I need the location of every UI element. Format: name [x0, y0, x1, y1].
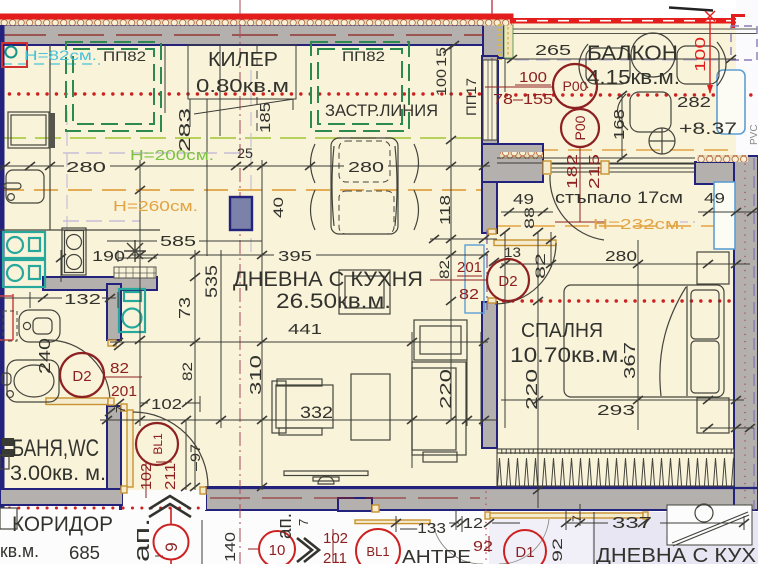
- black dash top right: [669, 8, 713, 11]
- bath sink: [7, 360, 59, 402]
- svg-text:293: 293: [597, 402, 635, 419]
- circle BL1 corridor: [356, 529, 400, 564]
- svg-text:168: 168: [611, 109, 628, 140]
- svg-text:185: 185: [257, 102, 274, 133]
- svg-text:535: 535: [202, 265, 221, 298]
- left wall: [0, 25, 5, 510]
- TV stand: [284, 471, 368, 476]
- svg-text:82: 82: [436, 260, 452, 279]
- balcony round table: [631, 33, 675, 77]
- circle P00 #1: [553, 64, 597, 108]
- svg-text:100: 100: [692, 37, 709, 72]
- toilet: [19, 310, 60, 342]
- circle D1 corridor: [504, 530, 546, 564]
- circle D2 bathroom: [60, 353, 104, 397]
- sofa 332: [276, 385, 333, 428]
- svg-text:337: 337: [612, 515, 652, 532]
- chair backs left: [311, 144, 316, 183]
- red box top-left + teal circle: [2, 43, 27, 67]
- tan insulation strip balcony left: [498, 24, 502, 60]
- svg-text:78–155: 78–155: [493, 91, 553, 108]
- svg-text:211: 211: [323, 550, 347, 564]
- svg-text:15: 15: [433, 47, 449, 67]
- svg-text:215: 215: [586, 154, 603, 189]
- PVC window balcony right: [717, 70, 745, 134]
- nightstand top: [697, 252, 729, 284]
- balcony chair right: [677, 46, 719, 84]
- nightstand bottom: [697, 398, 729, 433]
- lavender cabinet dashes kitchen: [63, 152, 252, 154]
- bedroom red dotted: [494, 299, 758, 302]
- svg-text:BL1: BL1: [151, 433, 165, 455]
- svg-text:265: 265: [535, 42, 571, 59]
- balcony floor edge lines: [497, 157, 695, 159]
- svg-text:220: 220: [524, 369, 541, 410]
- circle 9: [154, 525, 189, 560]
- svg-text:201: 201: [111, 383, 137, 400]
- svg-text:102: 102: [138, 463, 155, 490]
- circle BL1 hall: [136, 423, 178, 465]
- tilted window lower apartment: [667, 505, 752, 545]
- svg-text:P00: P00: [563, 78, 588, 94]
- svg-text:26.50кв.м.: 26.50кв.м.: [276, 290, 391, 313]
- svg-text:12: 12: [463, 515, 483, 532]
- svg-text:685: 685: [69, 543, 100, 563]
- svg-text:КИЛЕР: КИЛЕР: [208, 49, 278, 71]
- washing machine teal: [3, 260, 45, 287]
- corridor small door sill: [355, 520, 430, 524]
- vertical: [139, 160, 141, 426]
- top wall center dashed red line: [0, 34, 483, 36]
- bottom wall: [0, 489, 123, 505]
- svg-text:ЗАСТР.ЛИНИЯ: ЗАСТР.ЛИНИЯ: [325, 101, 438, 120]
- middle wall mid (above D2 door): [482, 182, 497, 233]
- svg-text:310: 310: [248, 355, 265, 395]
- svg-text:9: 9: [162, 542, 181, 551]
- svg-text:3.00кв. м.: 3.00кв. м.: [10, 462, 106, 485]
- svg-text:4.15кв.м.: 4.15кв.м.: [587, 67, 680, 89]
- svg-text:–97: –97: [187, 444, 203, 471]
- svg-text:367: 367: [622, 342, 639, 379]
- svg-text:0.80кв.м: 0.80кв.м: [196, 76, 289, 96]
- middle wall lower (below D2 door): [482, 302, 497, 448]
- stove: [62, 228, 86, 275]
- svg-text:BL1: BL1: [366, 544, 389, 559]
- svg-text:441: 441: [288, 321, 322, 338]
- right outer wall: [734, 156, 758, 510]
- svg-text:PVC: PVC: [749, 124, 758, 145]
- bath right wall lower: [107, 406, 121, 492]
- svg-text:132: 132: [64, 291, 101, 308]
- svg-text:88: 88: [521, 207, 537, 229]
- insulation bump row top: [0, 19, 513, 26]
- svg-text:СПАЛНЯ: СПАЛНЯ: [521, 320, 603, 342]
- armchair 1 (under 26.50 text): [339, 270, 390, 314]
- window PP82 #2 green dashed double rect: [311, 42, 409, 131]
- circle texts: [72, 78, 588, 561]
- middle wall upper (living/balcony): [482, 56, 498, 144]
- svg-text:кв.м.: кв.м.: [0, 541, 39, 561]
- svg-text:БАЛКОН: БАЛКОН: [587, 42, 678, 65]
- blue niche bedroom top-right: [714, 182, 735, 249]
- asterisk symbol: [124, 240, 146, 262]
- svg-text:82: 82: [532, 253, 548, 279]
- bed: [564, 285, 724, 397]
- svg-text:82: 82: [110, 360, 129, 377]
- red pipes bathroom: [0, 294, 13, 340]
- window PP82 #1 green dashed double rect: [66, 42, 161, 131]
- svg-text:40: 40: [270, 197, 286, 218]
- svg-text:ПП17: ПП17: [463, 78, 479, 116]
- svg-text:73: 73: [177, 297, 194, 319]
- svg-text:ПП82: ПП82: [342, 48, 385, 64]
- top wall: [0, 25, 485, 45]
- fridge: [8, 112, 49, 148]
- balcony lavender dashed line: [515, 59, 736, 61]
- svg-text:240: 240: [37, 338, 54, 374]
- svg-text:102: 102: [323, 530, 348, 547]
- dashed appliance bathroom: [3, 311, 17, 341]
- door D2 bedroom: leaf + arc: [494, 240, 556, 246]
- kitchen sink unit: [6, 170, 44, 203]
- svg-text:182: 182: [564, 154, 581, 189]
- right wall center red line: [744, 164, 746, 510]
- small panel bottom-left on wall: [0, 508, 17, 529]
- coffee table: [351, 374, 390, 440]
- middle wall L-block: [482, 144, 543, 182]
- circle D2 bedroom: [487, 259, 529, 301]
- purple dashed rect top right: [731, 26, 757, 60]
- duct navy box: [230, 197, 252, 230]
- dishwasher teal: [3, 232, 45, 258]
- svg-text:332: 332: [300, 403, 333, 422]
- svg-text:100: 100: [433, 69, 449, 96]
- svg-text:ДНЕВНА С КУХНЯ: ДНЕВНА С КУХНЯ: [233, 268, 423, 291]
- balcony chair left: [586, 48, 630, 84]
- kitchen counter edge: [49, 45, 51, 230]
- towel rail dark: [2, 438, 14, 446]
- svg-text:395: 395: [278, 248, 312, 265]
- svg-text:D2: D2: [72, 368, 91, 385]
- circle 10: [259, 531, 295, 564]
- wardrobe hatched: [497, 449, 734, 486]
- svg-text:140: 140: [222, 532, 239, 562]
- svg-text:ап.: ап.: [129, 518, 154, 562]
- bedroom top right wall: [695, 162, 758, 184]
- rotated dimension numbers: [37, 47, 639, 562]
- chair backs right: [414, 144, 419, 183]
- purple dashed line right wall: [753, 158, 755, 510]
- svg-text:92: 92: [549, 538, 565, 562]
- red facade line top: [0, 14, 513, 20]
- svg-text:211: 211: [162, 463, 179, 490]
- svg-text:H=232см.: H=232см.: [593, 216, 685, 233]
- cyan dashes top-left: [2, 63, 100, 65]
- kitchen/living red dotted: [0, 92, 484, 95]
- tan jambs balcony door: [543, 161, 551, 174]
- svg-text:118: 118: [437, 195, 454, 225]
- svg-text:10: 10: [269, 542, 286, 559]
- svg-text:D1: D1: [515, 544, 534, 561]
- maroon leader lines: [104, 85, 605, 564]
- svg-text:H=260см.: H=260см.: [113, 198, 198, 215]
- corridor door arcs lower apartment: [433, 524, 483, 564]
- right sliver above bedroom wall: [736, 0, 758, 156]
- svg-text:ап.: ап.: [274, 513, 296, 539]
- svg-text:7: 7: [113, 406, 128, 413]
- svg-text:585: 585: [160, 233, 196, 250]
- armchair 2: [414, 320, 467, 360]
- svg-text:—133: —133: [400, 520, 446, 537]
- window PP17 in middle wall: [483, 60, 497, 140]
- svg-text:280: 280: [66, 159, 106, 176]
- door BL1 hall: leaf + arc: [127, 410, 133, 487]
- balcony orange dashed line: [500, 149, 736, 151]
- balcony red dotted: [497, 93, 758, 96]
- bottom red dotted: [0, 507, 480, 510]
- closet KILER outlines: [188, 45, 296, 99]
- svg-text:49: 49: [704, 190, 725, 207]
- svg-text:H=200см.: H=200см.: [130, 147, 214, 164]
- svg-text:282: 282: [677, 94, 711, 111]
- svg-text:+8.37: +8.37: [679, 119, 737, 138]
- svg-text:10.70кв.м.: 10.70кв.м.: [510, 344, 625, 367]
- svg-text:82: 82: [459, 286, 479, 303]
- svg-text:D2: D2: [498, 273, 517, 290]
- svg-text:100: 100: [519, 69, 547, 86]
- svg-text:ДНЕВНА С КУХ: ДНЕВНА С КУХ: [596, 545, 756, 564]
- blue niche living room: [465, 245, 484, 313]
- insulation bumps bedroom top right: [697, 155, 748, 162]
- H=260 orange dashed line: [0, 189, 486, 191]
- bath right wall upper: [107, 284, 121, 340]
- svg-text:280: 280: [605, 248, 637, 265]
- svg-text:280: 280: [348, 159, 384, 176]
- balcony door swing arc: [550, 175, 604, 240]
- dining table: [331, 138, 398, 234]
- sofa 220 vertical: [412, 362, 466, 455]
- svg-text:КОРИДОР: КОРИДОР: [12, 513, 113, 536]
- svg-text:БАНЯ,WC: БАНЯ,WC: [12, 435, 99, 462]
- door D2 bathroom: leaf + arc: [46, 398, 108, 405]
- circle P00 #2: [561, 109, 599, 147]
- corridor strip: [0, 510, 758, 564]
- corridor wide door sill: [489, 513, 643, 518]
- lavender lower-right: [592, 512, 758, 564]
- drainer grid: [114, 267, 156, 278]
- wall step lower apartment: [338, 498, 372, 511]
- svg-text:P00: P00: [572, 115, 588, 140]
- chevrons: [149, 496, 319, 562]
- svg-text:7: 7: [570, 515, 584, 522]
- svg-text:283: 283: [177, 108, 194, 152]
- svg-text:220: 220: [438, 369, 455, 409]
- svg-text:ПП82: ПП82: [103, 48, 146, 64]
- chairs dashed under table: [339, 141, 390, 182]
- red dimension: balcony 100: [705, 11, 715, 94]
- water heater teal hall: [119, 289, 145, 332]
- bedroom H=232 orange dashed line: [497, 225, 736, 227]
- svg-text:стъпало 17см: стъпало 17см: [555, 188, 683, 207]
- svg-text:49: 49: [513, 191, 534, 208]
- H=200 green dashed line: [0, 137, 486, 139]
- balcony small table circle: [649, 128, 675, 154]
- svg-text:102: 102: [151, 396, 182, 413]
- red/maroon dimension texts: [110, 37, 709, 564]
- svg-text:АНТРЕ: АНТРЕ: [402, 547, 471, 564]
- balcony chair bottom: [630, 92, 671, 132]
- svg-text:7: 7: [296, 519, 311, 526]
- svg-text:92: 92: [473, 538, 493, 555]
- svg-text:13: 13: [504, 244, 521, 260]
- svg-text:H=82см.: H=82см.: [24, 47, 97, 63]
- svg-text:25: 25: [237, 145, 253, 161]
- svg-text:82: 82: [179, 362, 195, 381]
- svg-text:201: 201: [457, 259, 482, 276]
- window strip bedroom/balcony passage: [543, 163, 695, 165]
- svg-text:190: 190: [92, 248, 125, 265]
- kitchen/bath dividing wall: [43, 277, 157, 290]
